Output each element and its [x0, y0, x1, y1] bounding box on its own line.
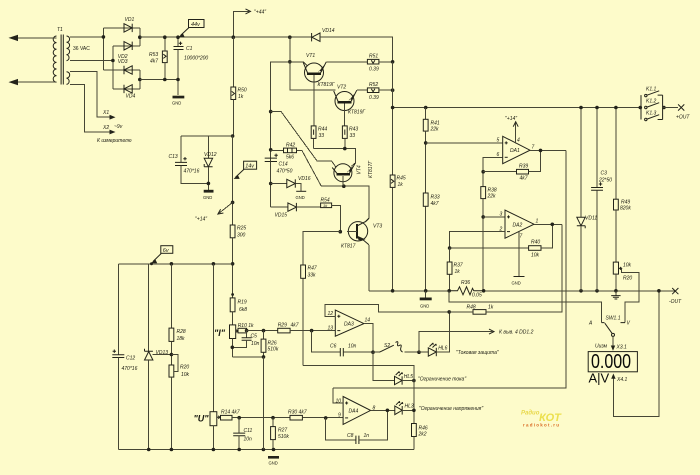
svg-text:VD11: VD11	[585, 216, 597, 222]
svg-text:C1: C1	[186, 46, 193, 52]
wire VT1 collector lead	[290, 62, 308, 66]
svg-text:36 VAC: 36 VAC	[73, 46, 90, 52]
zener VD11	[577, 108, 598, 291]
wire DA2 output	[534, 223, 562, 225]
wire DA3 output	[364, 324, 373, 353]
node bus VD13	[147, 448, 151, 452]
resistor R46	[412, 424, 428, 450]
node R39 junction	[481, 170, 485, 174]
capacitor C14	[265, 154, 293, 184]
wire C6 line	[312, 331, 340, 353]
node C1 top rail	[176, 35, 180, 39]
node HL5 cathode	[412, 379, 416, 383]
wire VT3 base line	[303, 232, 340, 265]
wire primary top lead	[14, 37, 57, 39]
wire C12 branch	[117, 264, 119, 355]
node rail C3	[595, 106, 599, 110]
svg-text:7: 7	[532, 145, 535, 151]
wire DA1 plus input	[426, 142, 503, 144]
svg-text:470*50: 470*50	[277, 169, 293, 175]
svg-text:4: 4	[517, 138, 520, 144]
svg-text:К выв. 4 DD1.2: К выв. 4 DD1.2	[499, 330, 534, 336]
svg-text:VT1: VT1	[306, 53, 315, 59]
capacitor C8	[326, 410, 388, 444]
node 6v rail end	[231, 262, 235, 266]
svg-text:10k: 10k	[531, 253, 540, 259]
svg-text:R51: R51	[369, 54, 378, 60]
svg-text:C5: C5	[251, 334, 258, 340]
capacitor C5	[232, 331, 259, 348]
svg-text:C6: C6	[330, 344, 337, 350]
svg-text:DA4: DA4	[349, 409, 359, 415]
op-amp DA2	[499, 210, 539, 239]
svg-text:3: 3	[500, 212, 503, 218]
svg-text:"Ограничение напряжения": "Ограничение напряжения"	[419, 406, 483, 412]
node shunt left	[447, 289, 451, 293]
svg-text:C13: C13	[169, 154, 178, 160]
svg-text:33k: 33k	[308, 273, 317, 279]
relay contact K1.1	[645, 87, 660, 97]
svg-text:SW1.1: SW1.1	[606, 316, 621, 322]
flag +14 label	[195, 202, 233, 222]
svg-text:R20: R20	[623, 276, 632, 282]
wire relay to +OUT	[663, 107, 678, 109]
resistor R50	[231, 37, 247, 136]
potentiometer U	[194, 412, 220, 450]
wire R28 branch	[170, 264, 172, 328]
node VD16 branch	[269, 182, 273, 186]
node secondary1 bottom junction	[111, 59, 115, 63]
node bridge minus out	[138, 78, 142, 82]
svg-text:T1: T1	[57, 27, 63, 33]
svg-text:R27: R27	[278, 428, 287, 434]
svg-text:A: A	[588, 321, 593, 327]
svg-text:~9v: ~9v	[114, 124, 123, 130]
wire SW common to meter	[595, 336, 627, 350]
svg-text:C12: C12	[126, 356, 135, 362]
wire VT2 emitter to R52	[357, 89, 368, 91]
earth symbol on bus	[611, 291, 620, 299]
node R27 junction	[271, 416, 275, 420]
node R52 out	[391, 88, 395, 92]
svg-text:C14: C14	[279, 162, 288, 168]
wire bridge minus rail	[103, 70, 139, 89]
diode VD16	[271, 176, 311, 191]
node VT3 base	[339, 230, 343, 234]
node R40 R37 junction	[448, 246, 452, 250]
wire output rail	[393, 107, 641, 109]
svg-text:R20: R20	[180, 365, 189, 371]
svg-text:10: 10	[336, 399, 342, 405]
resistor R48	[449, 224, 562, 314]
wire base resistors common	[314, 149, 356, 166]
svg-text:R54: R54	[321, 198, 330, 204]
node C11 junction	[237, 416, 241, 420]
resistor R37	[447, 248, 463, 291]
node bus C11	[237, 448, 241, 452]
zener VD13	[145, 349, 172, 450]
node HL3 cathode	[412, 409, 416, 413]
diode VD1	[124, 17, 134, 32]
svg-text:r a d i o k o t . r u: r a d i o k o t . r u	[523, 423, 559, 428]
svg-text:0.05: 0.05	[472, 293, 482, 299]
svg-text:22k: 22k	[487, 194, 497, 200]
wire VD14 to emitter node	[320, 37, 393, 62]
svg-text:R14 4k7: R14 4k7	[221, 410, 240, 416]
resistor R27	[271, 418, 290, 450]
svg-text:6k8: 6k8	[239, 307, 247, 313]
node +14 tap	[231, 201, 235, 205]
arrow mains top	[9, 35, 19, 41]
svg-text:5: 5	[497, 138, 500, 144]
svg-text:10k: 10k	[623, 263, 632, 269]
terminal X1	[102, 110, 116, 120]
svg-text:K1.1: K1.1	[646, 87, 657, 93]
ground DA2 pin7	[512, 277, 525, 286]
svg-text:1: 1	[536, 219, 539, 225]
wire +44 rail	[140, 36, 312, 38]
node C13 line junction	[231, 134, 235, 138]
svg-text:GND: GND	[512, 281, 521, 286]
svg-text:R45: R45	[397, 176, 406, 182]
svg-text:R39: R39	[519, 164, 528, 170]
flag +44 arrow	[233, 9, 266, 37]
resistor R45	[390, 175, 406, 291]
resistor R43	[342, 126, 358, 149]
svg-text:33: 33	[319, 133, 325, 139]
svg-text:C11: C11	[244, 428, 253, 434]
LED HL5	[395, 371, 467, 385]
node R53 top	[163, 35, 167, 39]
transistor VT3	[341, 218, 382, 249]
relay contact block K1	[641, 95, 663, 119]
svg-text:"U": "U"	[194, 414, 210, 424]
node bus U pot	[212, 448, 216, 452]
resistor R44	[311, 126, 327, 149]
svg-text:DA1: DA1	[510, 148, 520, 154]
node bus R33 gnd	[424, 289, 428, 293]
svg-text:КТ817: КТ817	[341, 244, 356, 250]
svg-text:DA2: DA2	[513, 223, 523, 229]
resistor R53	[149, 37, 167, 79]
svg-text:44v: 44v	[191, 22, 201, 28]
resistor R38	[481, 187, 497, 291]
potentiometer I	[214, 325, 238, 357]
wire DA4 plus input path	[333, 388, 343, 403]
svg-text:-OUT: -OUT	[669, 299, 682, 305]
node R26 bottom	[262, 355, 266, 359]
node VD13 R28 junction	[170, 353, 174, 357]
svg-text:GND: GND	[203, 195, 212, 200]
potentiometer R20 out	[613, 262, 639, 323]
diode VD2	[118, 42, 132, 60]
svg-text:10n: 10n	[251, 341, 260, 347]
svg-text:10n: 10n	[244, 437, 253, 443]
node DA3 out C6	[371, 350, 375, 354]
resistor R29	[278, 323, 336, 333]
svg-text:10k: 10k	[181, 372, 190, 378]
resistor R33	[423, 193, 440, 291]
node DA4 minus	[324, 416, 328, 420]
svg-text:HL3: HL3	[405, 404, 414, 410]
node bus R27 gnd	[272, 448, 276, 452]
svg-text:470*16: 470*16	[122, 366, 138, 372]
wire DA2 plus input	[483, 216, 505, 218]
wire DA1 output	[530, 149, 566, 151]
wire bottom gnd bus	[118, 449, 414, 451]
wire bridge plus rail	[103, 28, 139, 46]
svg-text:VT3: VT3	[373, 224, 382, 230]
node DA2 plus branch	[481, 215, 485, 219]
resistor R51	[367, 54, 392, 73]
wire diagonal to VT4 collector	[271, 112, 336, 167]
capacitor C3	[591, 108, 612, 291]
wire HL5 branch	[373, 352, 395, 380]
svg-text:R19: R19	[238, 300, 247, 306]
node DA1 out	[539, 149, 543, 153]
svg-text:GND: GND	[172, 101, 181, 106]
svg-text:"Токовая защита": "Токовая защита"	[456, 350, 499, 356]
node R26 top	[262, 329, 266, 333]
svg-text:820k: 820k	[620, 206, 631, 212]
svg-text:VD3: VD3	[118, 59, 128, 65]
node bus C3	[595, 289, 599, 293]
wire 6v rail	[118, 263, 232, 265]
diode VD4	[124, 85, 135, 100]
svg-text:VD15: VD15	[275, 213, 288, 219]
node rail R49	[614, 106, 618, 110]
svg-text:K1.3: K1.3	[646, 111, 657, 117]
flag 14v box	[234, 161, 257, 179]
resistor R54	[321, 198, 341, 232]
resistor R52	[367, 82, 392, 101]
wire meter return loop	[611, 291, 659, 417]
node rail relay left	[639, 106, 643, 110]
wire primary bottom lead	[14, 81, 57, 83]
svg-text:S2: S2	[384, 343, 390, 349]
wire bridge AC rail right	[112, 46, 114, 89]
svg-text:"Ограничение тока": "Ограничение тока"	[418, 377, 466, 383]
node bus VD11	[579, 289, 583, 293]
svg-text:10n: 10n	[348, 344, 357, 350]
svg-text:R53: R53	[149, 52, 158, 58]
node output rail start	[391, 106, 395, 110]
wire DA1 out to DA4 line	[333, 150, 566, 388]
svg-text:VD13: VD13	[156, 350, 169, 356]
resistor R39	[483, 150, 540, 181]
node bus R45	[391, 289, 395, 293]
wire VT3 emitter down	[368, 245, 370, 291]
logo radiokot	[521, 411, 562, 428]
node R41 rail	[424, 106, 428, 110]
svg-text:1k: 1k	[398, 182, 404, 188]
node latch node	[447, 310, 451, 314]
node HL6 anode	[417, 350, 421, 354]
transistor VT4	[332, 160, 374, 187]
relay contact K1.2	[645, 99, 660, 109]
resistor R30	[288, 410, 343, 421]
ground on bus	[268, 456, 279, 466]
diode VD3	[118, 59, 132, 74]
svg-text:VD14: VD14	[322, 28, 335, 34]
resistor R19	[230, 293, 247, 325]
flag 44v box	[179, 20, 204, 38]
svg-text:КТ819Г: КТ819Г	[348, 110, 366, 116]
wire secondary1 top to bridge	[70, 36, 104, 38]
svg-text:R40: R40	[531, 240, 540, 246]
capacitor C12	[112, 350, 137, 450]
svg-text:"+14": "+14"	[505, 116, 517, 122]
svg-text:4k7: 4k7	[520, 176, 528, 182]
resistor R49	[614, 108, 632, 263]
wire minus line to R53 C1	[140, 79, 178, 81]
LED HL6	[419, 312, 499, 356]
node R28 rail	[170, 262, 174, 266]
svg-text:14: 14	[365, 318, 371, 324]
svg-text:VD4: VD4	[126, 94, 136, 100]
capacitor C1	[174, 37, 209, 95]
svg-text:HL5: HL5	[404, 374, 413, 380]
ground below VD12	[203, 190, 214, 200]
ground below VD16	[296, 191, 307, 200]
LED HL3	[395, 401, 484, 415]
wire DA4 output	[371, 409, 395, 411]
wire latch to DD1 arrow	[419, 332, 493, 353]
capacitor C11	[233, 418, 252, 450]
terminal X2	[97, 124, 132, 144]
svg-text:0.000: 0.000	[591, 350, 631, 372]
resistor R26	[261, 331, 279, 357]
svg-text:R10 1k: R10 1k	[238, 323, 254, 329]
node bus I pot return	[262, 448, 266, 452]
wire secondary1 bottom to bridge	[70, 60, 113, 62]
ground below C1	[172, 96, 184, 106]
node U pot top rail	[212, 262, 216, 266]
wire R47 to LED column	[303, 365, 414, 423]
svg-text:GND: GND	[269, 461, 278, 466]
svg-text:X2: X2	[102, 125, 109, 131]
svg-text:Uизм: Uизм	[595, 344, 608, 350]
svg-text:C8: C8	[347, 433, 354, 439]
svg-text:33: 33	[350, 133, 356, 139]
node DA1 plus branch	[424, 141, 428, 145]
transistor VT1	[303, 53, 336, 126]
wire VD13 branch	[148, 264, 150, 351]
resistor R25	[230, 225, 246, 298]
resistor R10	[238, 323, 254, 333]
svg-text:VD12: VD12	[204, 152, 217, 158]
wire wiper line	[247, 330, 278, 332]
svg-text:0.39: 0.39	[369, 67, 379, 73]
wire secondary2 bottom to X2	[70, 84, 110, 132]
svg-text:R43: R43	[349, 127, 358, 133]
node R50 top	[232, 35, 236, 39]
svg-text:R44: R44	[318, 127, 327, 133]
wire secondary2 top to X1	[70, 72, 110, 118]
node shunt right	[482, 289, 486, 293]
svg-text:0.39: 0.39	[369, 95, 379, 101]
svg-text:КТ817Г: КТ817Г	[368, 160, 374, 178]
wire bridge AC rail left	[102, 28, 104, 70]
svg-text:R28: R28	[177, 329, 186, 335]
svg-text:VD16: VD16	[298, 176, 311, 182]
svg-text:R33: R33	[431, 195, 440, 201]
svg-text:VT4: VT4	[357, 165, 363, 174]
node DA2 out	[551, 223, 555, 227]
resistor R42	[271, 143, 302, 161]
svg-text:Радио: Радио	[521, 411, 540, 417]
node VT1 collector	[288, 60, 292, 64]
svg-text:18k: 18k	[177, 336, 186, 342]
svg-text:R48: R48	[467, 305, 476, 311]
flag +14 DA1 power	[505, 116, 518, 144]
node aux branch upper	[269, 110, 273, 114]
switch SW1.1	[588, 316, 631, 337]
svg-text:1k: 1k	[488, 305, 494, 311]
wire 14v aux line	[181, 136, 233, 225]
switch S2	[373, 342, 419, 353]
svg-text:4k7: 4k7	[291, 323, 299, 329]
potentiometer R20 10k	[169, 355, 190, 450]
svg-text:1k: 1k	[238, 94, 244, 100]
op-amp DA3	[328, 310, 371, 336]
svg-text:+OUT: +OUT	[676, 115, 690, 121]
wire aux +44 branch	[271, 62, 290, 207]
svg-text:4k7: 4k7	[431, 201, 439, 207]
svg-text:R29: R29	[278, 323, 287, 329]
svg-text:R37: R37	[454, 263, 463, 269]
svg-text:10000*200: 10000*200	[184, 56, 208, 62]
svg-text:2k2: 2k2	[418, 432, 427, 438]
node C5 top	[245, 329, 249, 333]
svg-text:4k7: 4k7	[150, 59, 158, 65]
zener VD12	[204, 136, 217, 190]
wire DA2 minus input	[450, 232, 505, 248]
node VT branch on rail	[288, 35, 292, 39]
shunt resistor R36	[449, 280, 483, 299]
node bus R20	[170, 448, 174, 452]
svg-text:510k: 510k	[268, 347, 279, 353]
node C14 R42 junction	[269, 148, 273, 152]
wire I pot bottom line	[232, 356, 263, 358]
svg-text:R30 4k7: R30 4k7	[288, 410, 307, 416]
svg-text:7: 7	[520, 234, 523, 240]
svg-text:9: 9	[338, 413, 341, 419]
capacitor C6	[330, 344, 373, 357]
svg-text:K1.2: K1.2	[646, 99, 657, 105]
svg-text:DA3: DA3	[344, 322, 354, 328]
svg-text:VT2: VT2	[337, 85, 346, 91]
svg-text:R42: R42	[286, 143, 295, 149]
node C1 minus line	[176, 78, 180, 82]
node R43 VT4 emitter junction	[343, 147, 347, 151]
node 6v pointer	[150, 262, 153, 265]
svg-text:HL6: HL6	[438, 346, 447, 352]
node bus R20	[614, 289, 618, 293]
svg-text:14v: 14v	[245, 164, 255, 170]
diode VD14	[312, 28, 335, 41]
svg-text:470*16: 470*16	[184, 169, 200, 175]
wire DA1 minus input	[483, 157, 503, 186]
svg-text:13: 13	[328, 326, 334, 332]
svg-text:X1: X1	[102, 110, 109, 116]
terminal +OUT	[676, 104, 690, 120]
svg-text:КТ819Г: КТ819Г	[318, 82, 336, 88]
node relay right	[662, 106, 666, 110]
svg-text:К измерителю: К измерителю	[97, 138, 132, 144]
svg-text:1k: 1k	[455, 269, 461, 275]
node secondary1 top junction	[102, 35, 106, 39]
